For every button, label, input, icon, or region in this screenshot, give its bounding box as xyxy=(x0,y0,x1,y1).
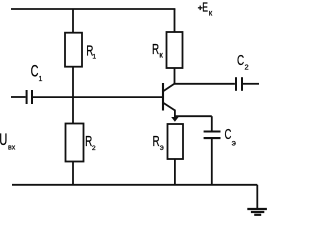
svg-text:U: U xyxy=(0,131,7,150)
svg-text:R: R xyxy=(152,41,159,58)
svg-text:1: 1 xyxy=(92,54,96,61)
svg-text:э: э xyxy=(160,143,164,152)
svg-text:э: э xyxy=(232,137,236,147)
svg-text:C: C xyxy=(31,61,39,80)
svg-text:2: 2 xyxy=(245,63,249,72)
svg-text:E: E xyxy=(202,1,208,15)
svg-text:C: C xyxy=(225,126,232,143)
svg-text:к: к xyxy=(159,50,163,59)
svg-text:вх: вх xyxy=(8,144,16,151)
svg-text:C: C xyxy=(237,52,244,69)
svg-text:R: R xyxy=(153,133,160,150)
svg-text:2: 2 xyxy=(92,145,96,152)
svg-text:1: 1 xyxy=(39,76,43,83)
svg-text:к: к xyxy=(209,9,213,18)
